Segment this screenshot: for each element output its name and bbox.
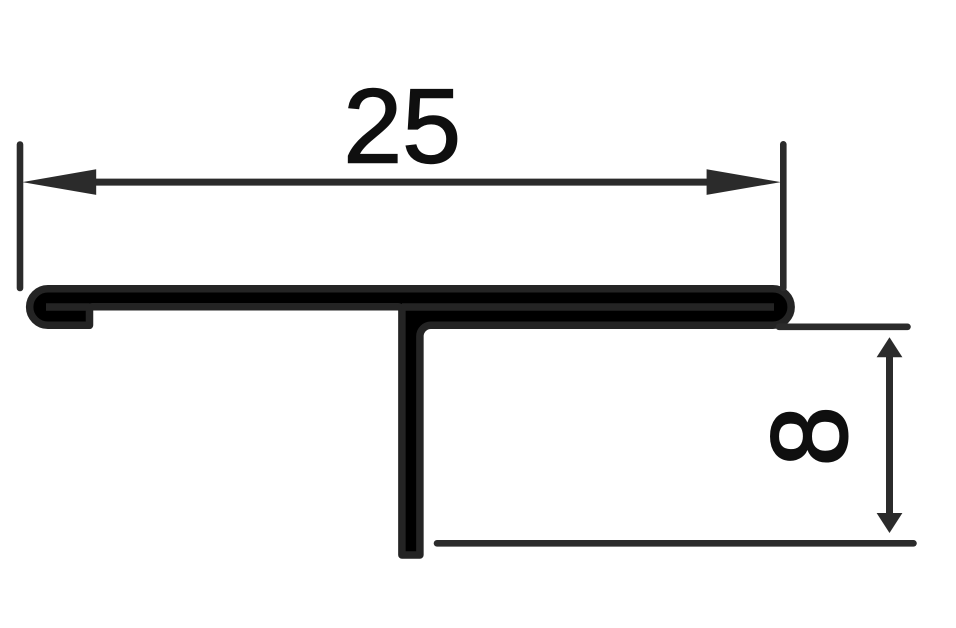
hem seam line (left folded edge) xyxy=(46,303,90,311)
dim 8 dimension line xyxy=(886,357,893,514)
dim 25 left extension line xyxy=(17,145,24,289)
dim 25 dimension line xyxy=(96,179,711,186)
dim 8 top extension line xyxy=(779,323,908,330)
dim 8 bottom extension line xyxy=(437,540,914,547)
svg-text:25: 25 xyxy=(343,68,461,186)
profile outline (sheet-metal Z/J profile cross-section) xyxy=(30,289,792,555)
svg-text:8: 8 xyxy=(749,406,870,466)
return seam line (under top flange) xyxy=(402,303,774,311)
dim 8 top arrowhead xyxy=(877,337,903,357)
dim 25 left arrowhead xyxy=(22,169,96,195)
dim 25 right arrowhead xyxy=(707,169,781,195)
dim 8 bottom arrowhead xyxy=(877,513,903,533)
dim 25 right extension line xyxy=(780,144,787,288)
